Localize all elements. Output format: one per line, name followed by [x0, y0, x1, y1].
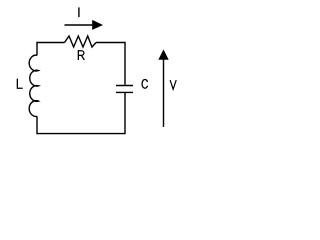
- wire: right vertical below capacitor + bottom wire + left vertical below inductor: [37, 93, 125, 134]
- label I: [78, 7, 80, 17]
- wire: left-top vertical + top wire left segment: [37, 43, 65, 56]
- capacitor C bottom plate: [116, 91, 133, 93]
- current arrow I (line): [65, 24, 94, 26]
- RLC parallel circuit schematic: [0, 0, 192, 165]
- inductor L (4 loops): [29, 55, 38, 116]
- wire: top wire right segment + right vertical to capacitor: [96, 43, 125, 85]
- voltage arrow V (line): [163, 59, 165, 127]
- current arrow I (head): [92, 20, 103, 30]
- capacitor C top plate: [116, 85, 133, 87]
- label L: [17, 79, 22, 89]
- voltage arrow V (head): [158, 49, 168, 59]
- label R: [78, 50, 84, 60]
- label V: [170, 80, 176, 89]
- label C: [142, 79, 148, 88]
- resistor R: [65, 36, 97, 47]
